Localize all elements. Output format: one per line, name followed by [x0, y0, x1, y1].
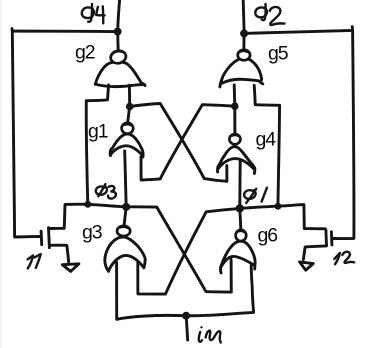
svg-text:g5: g5 [268, 42, 289, 64]
svg-text:g1: g1 [88, 120, 108, 142]
svg-text:g4: g4 [256, 128, 277, 150]
svg-text:g2: g2 [75, 41, 95, 63]
svg-text:g3: g3 [82, 221, 102, 243]
svg-text:g6: g6 [258, 224, 278, 246]
